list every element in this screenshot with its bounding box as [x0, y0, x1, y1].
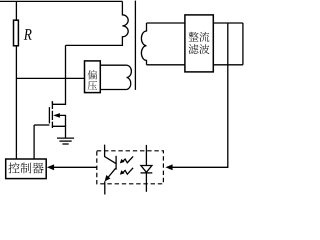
block: controller box: [6, 159, 47, 179]
label 控制器: [8, 162, 43, 173]
wire: bias box to aux winding top lead: [100, 64, 126, 66]
optocoupler dashed box: [97, 151, 164, 184]
wire: secondary bottom lead: [147, 64, 185, 66]
optocoupler light arrow 1: [120, 156, 133, 163]
wire: bias box to aux winding bottom lead: [100, 89, 126, 91]
transformer secondary winding: [141, 23, 146, 65]
ground: [57, 138, 74, 144]
label bias 偏压: [88, 70, 98, 90]
wire: optocoupler to controller: [54, 166, 97, 168]
label 整流滤波: [188, 32, 209, 54]
MOSFET Q1: [34, 101, 65, 137]
arrowhead: into controller: [47, 164, 54, 170]
wire: output negative rail: [213, 64, 243, 66]
block: bias box: [85, 61, 101, 93]
transformer primary winding: [66, 1, 129, 45]
wire: output positive rail: [213, 22, 243, 24]
wire: input top rail: [0, 0, 122, 2]
label R: [24, 29, 32, 40]
wire: output terminal bar: [242, 23, 244, 65]
wire: gate wire from controller up to gate: [33, 125, 35, 159]
wire: feedback sense line to optocoupler: [172, 23, 228, 167]
transformer core: [134, 1, 136, 90]
transformer auxiliary winding: [127, 65, 132, 89]
optocoupler light arrow 2: [120, 168, 133, 175]
resistor R: [14, 20, 19, 46]
wire: secondary top lead: [147, 22, 185, 24]
optocoupler phototransistor: [105, 145, 117, 195]
block: rectifier-filter box: [185, 15, 213, 72]
arrowhead: sense into optocoupler: [165, 164, 172, 170]
wire: left rail from top rail down to controller: [15, 1, 17, 159]
optocoupler LED D1: [141, 145, 153, 192]
wire: left rail tap to bias block: [16, 77, 84, 79]
wire: drain lead from primary bottom to MOSFET: [52, 45, 65, 104]
